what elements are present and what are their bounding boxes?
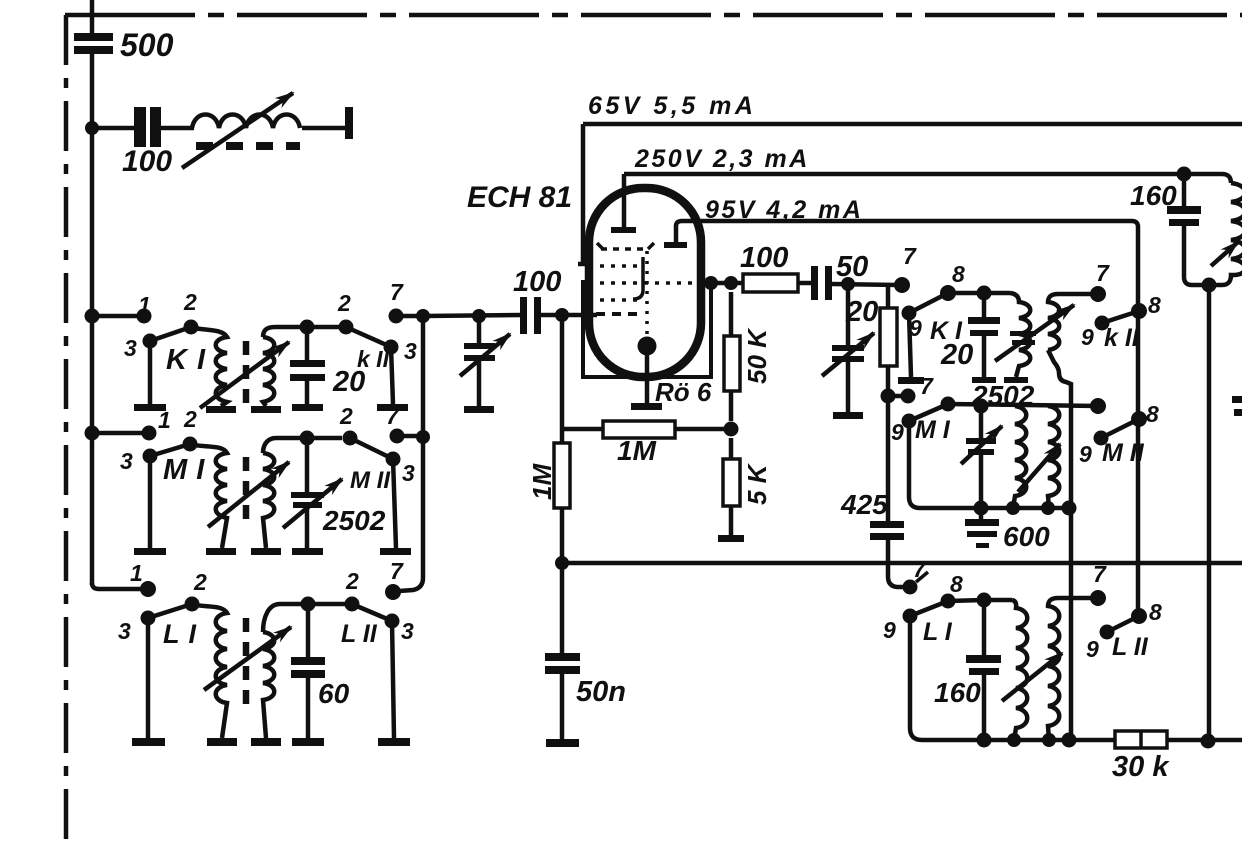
svg-text:2: 2	[183, 289, 197, 315]
svg-text:7: 7	[920, 373, 934, 399]
svg-text:5 K: 5 K	[742, 462, 772, 505]
svg-text:100: 100	[513, 266, 561, 298]
svg-text:L I: L I	[923, 618, 953, 646]
svg-text:500: 500	[120, 27, 174, 63]
svg-text:8: 8	[1149, 599, 1162, 625]
svg-text:95V 4,2 mA: 95V 4,2 mA	[705, 196, 863, 224]
svg-text:3: 3	[404, 338, 417, 364]
svg-text:1M: 1M	[617, 435, 657, 466]
svg-text:1: 1	[158, 407, 171, 433]
svg-text:L II: L II	[341, 620, 378, 648]
svg-text:65V 5,5 mA: 65V 5,5 mA	[588, 92, 756, 120]
svg-text:3: 3	[124, 335, 137, 361]
svg-text:160: 160	[934, 677, 981, 708]
svg-text:M I: M I	[163, 454, 205, 486]
svg-text:50 K: 50 K	[742, 327, 772, 384]
svg-text:7: 7	[903, 243, 917, 269]
svg-text:L I: L I	[163, 619, 197, 649]
svg-text:1M: 1M	[527, 463, 557, 500]
svg-text:9: 9	[1081, 324, 1094, 350]
svg-text:100: 100	[740, 242, 788, 274]
svg-text:3: 3	[120, 448, 133, 474]
svg-text:425: 425	[840, 489, 888, 520]
svg-text:2: 2	[339, 403, 353, 429]
svg-text:L II: L II	[1112, 633, 1149, 661]
svg-text:9: 9	[1086, 636, 1099, 662]
svg-text:1: 1	[130, 560, 143, 586]
svg-text:20: 20	[845, 296, 878, 328]
svg-text:7: 7	[386, 403, 400, 429]
svg-text:K I: K I	[930, 317, 963, 345]
svg-text:M II: M II	[350, 467, 391, 494]
svg-text:3: 3	[402, 460, 415, 486]
svg-text:9: 9	[1079, 441, 1092, 467]
svg-text:2502: 2502	[322, 505, 386, 536]
svg-text:8: 8	[952, 261, 965, 287]
svg-text:600: 600	[1003, 521, 1050, 552]
svg-text:8: 8	[1148, 292, 1161, 318]
svg-text:50: 50	[836, 251, 868, 283]
svg-text:7: 7	[1093, 561, 1107, 587]
svg-text:9: 9	[883, 617, 896, 643]
svg-text:50n: 50n	[576, 676, 626, 708]
svg-text:250V 2,3 mA: 250V 2,3 mA	[634, 145, 810, 173]
svg-text:9: 9	[909, 315, 922, 341]
svg-text:9: 9	[891, 419, 904, 445]
svg-text:2: 2	[193, 569, 207, 595]
svg-text:ECH 81: ECH 81	[467, 181, 572, 214]
svg-text:8: 8	[950, 571, 963, 597]
svg-text:7: 7	[390, 279, 404, 305]
svg-text:3: 3	[118, 618, 131, 644]
svg-text:7: 7	[913, 556, 927, 582]
svg-text:2502: 2502	[971, 380, 1035, 411]
svg-text:160: 160	[1130, 180, 1177, 211]
svg-text:7: 7	[390, 558, 404, 584]
svg-text:30 k: 30 k	[1112, 751, 1170, 783]
svg-text:K I: K I	[166, 344, 206, 376]
svg-text:M II: M II	[1102, 439, 1145, 467]
svg-text:8: 8	[1146, 401, 1159, 427]
svg-text:2: 2	[337, 290, 351, 316]
svg-text:2: 2	[345, 568, 359, 594]
svg-text:3: 3	[401, 618, 414, 644]
svg-text:2: 2	[183, 406, 197, 432]
svg-text:M I: M I	[915, 416, 951, 444]
svg-text:100: 100	[122, 145, 172, 178]
svg-text:7: 7	[1096, 260, 1110, 286]
svg-text:1: 1	[138, 292, 151, 318]
svg-text:20: 20	[332, 366, 365, 398]
svg-text:Rö 6: Rö 6	[655, 377, 712, 407]
svg-text:60: 60	[318, 678, 350, 709]
svg-text:k II: k II	[1104, 324, 1140, 352]
